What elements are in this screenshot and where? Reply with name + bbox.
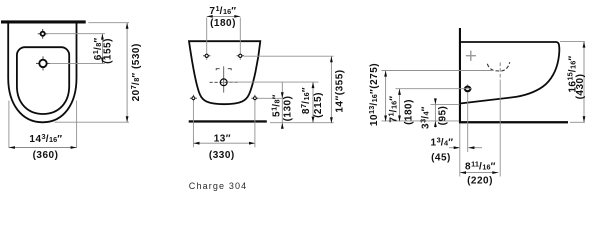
dimension 5 1/8 (130) line (281, 82, 284, 129)
svg-text:33/4″: 33/4″ (418, 106, 431, 129)
bidet inner rim (plan) (17, 47, 69, 114)
hole ext below (467, 92, 469, 152)
svg-text:(180): (180) (403, 99, 414, 125)
ext line top of 430 (560, 41, 585, 43)
extension line from drain hole (50, 62, 105, 64)
extension line top of 530 (88, 22, 129, 24)
bidet front silhouette (189, 41, 260, 104)
ext line hole height 180 (396, 88, 473, 90)
svg-text:(95): (95) (438, 106, 449, 126)
floor bar (front) (189, 120, 267, 122)
dimension 3 3/4 (95) line (434, 98, 437, 127)
extension line bottom of 530 (55, 121, 130, 123)
centerline above drain (front) (223, 66, 225, 92)
svg-text:(215): (215) (313, 92, 324, 118)
left top fixing hole ext line (206, 18, 208, 61)
dimension 14 3/16 (360) line (9, 146, 77, 149)
ext line top holes to 355 dim (244, 55, 334, 57)
back wall bar (plan) (1, 20, 86, 23)
dimension 7 1/16 (180) side line (398, 89, 401, 122)
tap position cross (side) (466, 51, 476, 61)
right top fixing hole ext line (239, 18, 241, 61)
svg-text:(180): (180) (210, 18, 236, 29)
left side fixing hole (190, 95, 197, 102)
svg-text:51/8″: 51/8″ (269, 94, 282, 117)
dimension 1 3/4 (45) (449, 146, 482, 149)
svg-text:207/8″ (530): 207/8″ (530) (129, 43, 142, 101)
extension from right side hole (258, 97, 284, 99)
dimension 13 (330) line (194, 142, 256, 145)
drain vertical ext (side) (499, 63, 501, 81)
dimension 7 1/16 (180) line (207, 15, 241, 18)
dimension 16 15/16 (430) line (583, 42, 586, 123)
extension line from faucet hole (47, 33, 105, 35)
svg-text:13″: 13″ (214, 133, 231, 144)
right side fixing hole (251, 95, 258, 102)
dimension 6 1/8 (155) line (101, 34, 104, 64)
bidet outer rim (plan) (8, 24, 76, 123)
faucet hole (plan) (38, 29, 48, 39)
fixing hole (side) (463, 84, 472, 93)
svg-text:(130): (130) (283, 96, 294, 122)
ext line drain height 275 (382, 70, 493, 72)
ext lines below side holes (192, 101, 194, 148)
svg-text:1013/16″(275): 1013/16″(275) (367, 63, 380, 126)
dimension 20 7/8 (530) line (126, 23, 129, 123)
svg-text:(220): (220) (467, 176, 493, 187)
ext line bottom of 430 (570, 121, 585, 123)
drain hole (plan) (36, 56, 50, 70)
wall line (side) (459, 28, 461, 123)
dimension 10 13/16 (275) line (384, 71, 387, 122)
floor extension line (front) (270, 122, 334, 124)
extension line from drain (front) (228, 81, 319, 83)
wall ext below floor (459, 123, 461, 176)
drain (front, hidden) (210, 79, 239, 86)
left top fixing hole (203, 54, 210, 57)
svg-text:(330): (330) (209, 150, 235, 161)
ext line underside 95 (431, 103, 460, 105)
dimension 14 (355) line (330, 56, 333, 123)
svg-text:811/16″: 811/16″ (465, 160, 496, 173)
bidet side silhouette (461, 42, 559, 103)
hidden overflow dashes (216, 69, 231, 71)
hidden drain arc (side) (487, 62, 510, 71)
floor bar (side) (459, 121, 568, 123)
svg-text:(45): (45) (431, 153, 451, 164)
svg-text:(360): (360) (33, 150, 59, 161)
svg-text:143/16″: 143/16″ (29, 132, 62, 145)
svg-text:(155): (155) (102, 38, 113, 64)
extension lines for 360 width (8, 101, 10, 148)
svg-text:14″(355): 14″(355) (334, 69, 345, 112)
svg-text:Charge 304: Charge 304 (189, 181, 248, 191)
right top fixing hole (237, 54, 244, 57)
svg-text:(430): (430) (575, 74, 586, 100)
dimension 8 7/16 (215) line (312, 82, 315, 123)
ext line floor left (382, 120, 459, 122)
dimension 8 11/16 (220) line (460, 171, 498, 174)
svg-text:13/4″: 13/4″ (431, 136, 454, 149)
